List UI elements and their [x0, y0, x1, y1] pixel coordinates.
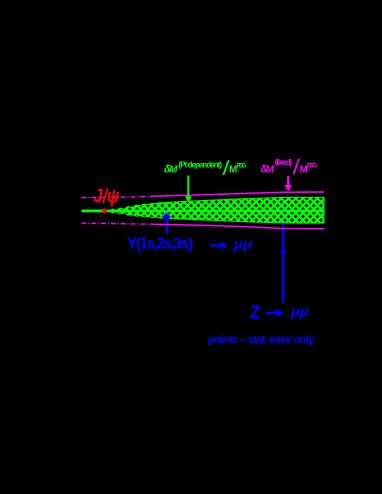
magenta upper band line (dash-dot) [82, 196, 153, 197]
svg-text:δM: δM [164, 165, 178, 176]
svg-text:(fixed): (fixed) [275, 158, 293, 167]
blue label Upsilon(1s,2s,3s) -> mumu [127, 235, 252, 253]
svg-text:PDG: PDG [307, 163, 317, 170]
magenta arrow from label to upper line [287, 176, 289, 186]
green zero line (mass scale reference) [82, 210, 325, 213]
blue Upsilon data point (diamond marker) [162, 213, 171, 222]
svg-text:Z: Z [250, 302, 261, 322]
svg-text:Υ(1s,2s,3s): Υ(1s,2s,3s) [127, 235, 193, 252]
svg-text:(Pt dependent): (Pt dependent) [179, 161, 223, 170]
svg-text:PDG: PDG [237, 162, 247, 169]
blue error bar line Z [282, 200, 285, 303]
green label dM(Pt dependent)/M PDG [164, 160, 247, 175]
magenta label dM(fixed)/M PDG [261, 158, 318, 175]
magenta lower band line (dash-dot) [82, 223, 153, 224]
svg-text:J/ψ: J/ψ [94, 186, 120, 207]
svg-text:μμ: μμ [290, 303, 309, 320]
svg-text:points – stat. error only: points – stat. error only [207, 334, 315, 346]
blue label Z -> mumu [250, 302, 309, 322]
svg-text:δM: δM [261, 164, 275, 175]
blue Z data point (diamond marker) [280, 248, 286, 254]
green crosshatched uncertainty band [112, 197, 324, 223]
svg-text:μμ: μμ [233, 236, 252, 253]
blue error bar line Upsilon [166, 204, 168, 234]
red J/psi data point (square marker) [103, 209, 108, 214]
green arrow from label to band [187, 176, 189, 197]
